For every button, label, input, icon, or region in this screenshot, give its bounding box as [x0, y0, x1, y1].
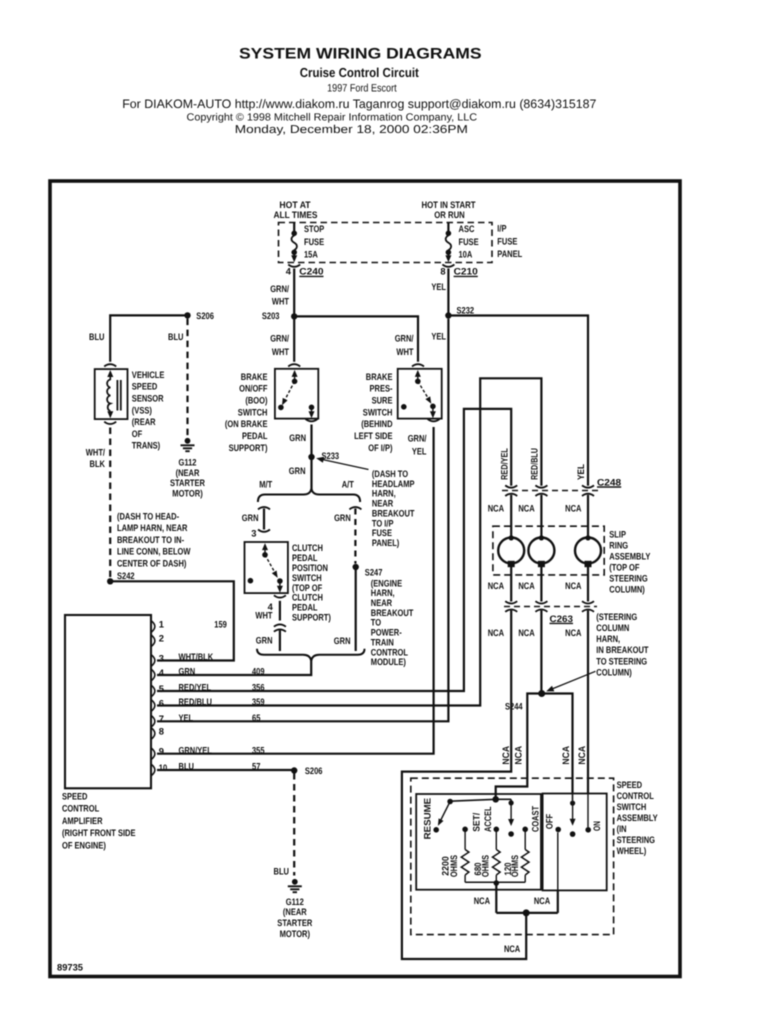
- wire YEL S232 to slip ring 3: [448, 316, 588, 486]
- svg-text:NCA: NCA: [518, 580, 534, 591]
- svg-text:STOP: STOP: [304, 223, 324, 234]
- svg-text:3: 3: [159, 652, 164, 663]
- svg-text:NCA: NCA: [488, 627, 504, 638]
- svg-text:COLUMN): COLUMN): [596, 666, 632, 677]
- wire GRN M/T branch: [263, 509, 265, 530]
- svg-text:Copyright © 1998 Mitchell Repa: Copyright © 1998 Mitchell Repair Informa…: [187, 112, 478, 123]
- svg-text:S242: S242: [117, 570, 135, 581]
- RESUME switch: [447, 799, 453, 805]
- svg-text:S232: S232: [457, 305, 475, 316]
- fuse panel dashed box: [279, 223, 493, 263]
- svg-text:GRN: GRN: [179, 666, 196, 677]
- ground G112 upper: [185, 438, 191, 444]
- amplifier pin 8: [152, 728, 155, 739]
- svg-text:8: 8: [440, 266, 445, 277]
- node NCA junction: [523, 909, 530, 916]
- svg-text:NCA: NCA: [474, 895, 490, 906]
- svg-text:SET/: SET/: [471, 812, 482, 831]
- wire RED/YEL 356 pin 5 to slip ring 1: [157, 409, 511, 691]
- connector C263: [504, 606, 597, 608]
- svg-text:IN BREAKOUT: IN BREAKOUT: [596, 644, 648, 655]
- svg-text:NCA: NCA: [500, 746, 511, 765]
- OFF switch movable contact: [572, 794, 574, 801]
- svg-text:159: 159: [214, 619, 227, 630]
- svg-text:(DASH TO HEAD-: (DASH TO HEAD-: [117, 511, 179, 522]
- svg-text:GRN/: GRN/: [395, 333, 414, 344]
- connector C240 pin 4: [288, 265, 300, 267]
- svg-text:BLU: BLU: [89, 331, 105, 342]
- svg-text:HARN,: HARN,: [596, 633, 620, 644]
- fuse F1 STOP FUSE 15A: [293, 223, 295, 232]
- amplifier pin 5: [152, 686, 155, 697]
- wire GRN/WHT S203 to BOO switch: [293, 316, 295, 361]
- svg-text:SUPPORT): SUPPORT): [292, 612, 331, 623]
- clutch switch contacts: [264, 545, 266, 554]
- wire resistor bus to NCA junction: [495, 883, 497, 913]
- connector below BOO switch: [306, 419, 318, 421]
- svg-text:NCA: NCA: [513, 746, 524, 765]
- wire BLU S206 to G112 lower (dashed): [293, 773, 295, 876]
- vehicle speed sensor VSS box: [95, 369, 128, 419]
- switch box RESUME/SET-ACCEL/COAST: [416, 794, 541, 890]
- fuse F2 ASC FUSE 10A: [447, 223, 449, 232]
- svg-text:M/T: M/T: [259, 479, 272, 490]
- svg-text:OHMS: OHMS: [509, 855, 520, 877]
- svg-text:BLU: BLU: [274, 866, 290, 877]
- wire RED/BLU 359 pin 6 to slip ring 2: [157, 378, 541, 705]
- svg-text:FUSE: FUSE: [304, 236, 324, 247]
- node S206 lower: [291, 767, 297, 773]
- wire WHT/BLK VSS to S242 (dashed): [109, 428, 111, 579]
- switch box OFF/ON: [543, 794, 607, 891]
- svg-text:NCA: NCA: [488, 580, 504, 591]
- amplifier pin 6: [152, 700, 155, 711]
- svg-text:ASSEMBLY: ASSEMBLY: [617, 812, 659, 823]
- resistor 2200 OHMS: [462, 827, 468, 833]
- svg-text:GRN: GRN: [242, 512, 259, 523]
- svg-text:SPEED: SPEED: [617, 779, 643, 790]
- ground G112 lower: [292, 879, 298, 885]
- VSS internal arrows and coil: [109, 373, 111, 381]
- svg-text:ASC: ASC: [459, 223, 475, 234]
- svg-text:OHMS: OHMS: [480, 855, 491, 877]
- svg-text:ON/OFF: ON/OFF: [239, 383, 268, 394]
- svg-text:BRAKE: BRAKE: [241, 371, 268, 382]
- svg-text:10: 10: [159, 762, 167, 773]
- node S232: [445, 312, 451, 318]
- wire GRN/WHT S203 to brake pressure switch: [294, 316, 418, 361]
- svg-text:WHT: WHT: [396, 346, 413, 357]
- slip ring coil 3: [575, 538, 601, 564]
- ON switch contact: [587, 794, 589, 828]
- svg-text:NCA: NCA: [504, 943, 520, 954]
- svg-text:YEL: YEL: [431, 281, 446, 292]
- svg-text:BRAKE: BRAKE: [366, 371, 393, 382]
- svg-text:ASSEMBLY: ASSEMBLY: [609, 551, 651, 562]
- svg-text:OF ENGINE): OF ENGINE): [62, 839, 106, 850]
- wire S244 right branch to OFF contact: [542, 694, 573, 794]
- connector M/T branch top: [258, 507, 270, 509]
- svg-text:VEHICLE: VEHICLE: [132, 369, 165, 380]
- svg-text:409: 409: [252, 666, 265, 677]
- svg-text:7: 7: [159, 713, 164, 724]
- wire slip ring 3 to ON contact: [587, 610, 589, 793]
- svg-text:YEL: YEL: [412, 446, 427, 457]
- svg-text:NCA: NCA: [565, 627, 581, 638]
- svg-text:(REAR: (REAR: [132, 416, 156, 427]
- wire GRN/YEL 355 pin 9 to brake pressure switch: [157, 427, 434, 754]
- svg-text:8: 8: [159, 725, 164, 736]
- svg-text:S244: S244: [505, 701, 523, 712]
- M/T A/T split bracket: [258, 489, 360, 502]
- svg-text:GRN: GRN: [289, 432, 306, 443]
- svg-text:GRN/: GRN/: [270, 283, 289, 294]
- svg-text:15A: 15A: [304, 249, 318, 260]
- svg-text:C210: C210: [454, 266, 478, 277]
- wire GRN clutch to merge: [279, 630, 281, 651]
- brake pressure switch box: [398, 369, 442, 419]
- amplifier pin 9: [152, 748, 155, 759]
- svg-text:ON: ON: [591, 821, 602, 831]
- svg-text:ACCEL: ACCEL: [482, 806, 493, 832]
- brake pressure switch contacts: [417, 372, 419, 380]
- connector above BOO switch: [288, 364, 300, 366]
- svg-text:BLU: BLU: [168, 331, 184, 342]
- OFF switch contact: [555, 827, 561, 833]
- svg-text:S206: S206: [305, 765, 323, 776]
- svg-text:(NEAR: (NEAR: [283, 906, 307, 917]
- wire BLU 57 pin 10 to S206: [157, 769, 294, 771]
- connector below VSS: [104, 422, 116, 424]
- connector A/T branch top: [349, 507, 361, 509]
- svg-text:RESUME: RESUME: [421, 798, 432, 840]
- svg-text:CONTROL: CONTROL: [617, 790, 654, 801]
- wire WHT clutch pin 4: [279, 601, 281, 621]
- amplifier pin 1: [152, 621, 155, 632]
- svg-text:STEERING: STEERING: [609, 573, 647, 584]
- svg-text:MOTOR): MOTOR): [280, 928, 310, 939]
- svg-text:C248: C248: [597, 477, 621, 488]
- amplifier pin 2: [152, 635, 155, 646]
- svg-text:SPEED: SPEED: [132, 381, 158, 392]
- junction dot from S244 branch: [492, 796, 499, 803]
- in-line connector on clutch wire: [274, 624, 286, 626]
- resistor 680 OHMS: [494, 827, 500, 833]
- wire GRN/WHT fuse F1 to S203: [293, 269, 295, 317]
- svg-text:I/P: I/P: [497, 222, 506, 233]
- svg-text:YEL: YEL: [575, 464, 586, 480]
- svg-text:MOTOR): MOTOR): [172, 487, 202, 498]
- svg-text:LEFT SIDE: LEFT SIDE: [354, 430, 392, 441]
- svg-text:STEERING: STEERING: [617, 834, 655, 845]
- svg-text:WHT/: WHT/: [86, 447, 106, 458]
- wire GRN BOO to S233: [310, 425, 312, 458]
- arrow pointing to S244: [550, 671, 596, 690]
- svg-text:SWITCH: SWITCH: [363, 406, 393, 417]
- svg-text:OHMS: OHMS: [448, 855, 459, 877]
- svg-text:RED/YEL: RED/YEL: [498, 448, 509, 480]
- wire BLU S206 to G112 (dashed): [186, 319, 188, 437]
- wiper contact SET-ACCEL/COAST: [496, 798, 511, 800]
- svg-text:GRN: GRN: [289, 465, 306, 476]
- svg-text:COLUMN: COLUMN: [596, 622, 629, 633]
- svg-text:RING: RING: [609, 540, 628, 551]
- amplifier pin 10: [152, 765, 155, 776]
- wire GRN A/T branch (dashed): [354, 509, 356, 564]
- svg-text:COAST: COAST: [529, 806, 540, 832]
- wire NCA junction bus: [496, 912, 558, 914]
- wire OFF contact to NCA junction: [557, 890, 559, 913]
- svg-text:NCA: NCA: [518, 503, 534, 514]
- svg-text:(BOO): (BOO): [245, 395, 267, 406]
- node S244: [538, 690, 545, 697]
- wires slip ring to C263: [510, 566, 512, 602]
- resistor bus bar: [465, 881, 525, 883]
- svg-text:GRN/: GRN/: [270, 333, 289, 344]
- slip ring coil 2: [528, 538, 554, 564]
- svg-text:SLIP: SLIP: [609, 529, 626, 540]
- svg-text:MODULE): MODULE): [371, 656, 406, 667]
- svg-text:GRN: GRN: [334, 635, 351, 646]
- wire YEL fuse F2 to S232: [447, 269, 449, 316]
- svg-text:(STEERING: (STEERING: [596, 611, 637, 622]
- svg-text:OF: OF: [132, 428, 143, 439]
- svg-text:3: 3: [251, 528, 256, 539]
- svg-text:(IN: (IN: [617, 823, 627, 834]
- svg-text:For DIAKOM-AUTO http://www.dia: For DIAKOM-AUTO http://www.diakom.ru Tag…: [122, 97, 596, 111]
- speed control amplifier connector box: [65, 615, 151, 788]
- merge bracket to pin 4 wire: [257, 649, 365, 661]
- svg-text:BLK: BLK: [90, 458, 106, 469]
- svg-text:GRN: GRN: [256, 635, 273, 646]
- wire slip ring 2 to S244: [540, 610, 542, 693]
- svg-text:4: 4: [159, 667, 165, 678]
- svg-text:OFF: OFF: [544, 814, 555, 829]
- svg-text:FUSE: FUSE: [497, 235, 517, 246]
- svg-text:SWITCH: SWITCH: [617, 801, 647, 812]
- svg-text:TRANS): TRANS): [132, 440, 160, 451]
- svg-text:GRN: GRN: [334, 512, 351, 523]
- svg-text:Cruise Control Circuit: Cruise Control Circuit: [300, 65, 420, 80]
- svg-text:4: 4: [286, 266, 292, 277]
- svg-text:SURE: SURE: [372, 395, 393, 406]
- wire GRN S247 to merge: [355, 567, 357, 651]
- svg-text:SENSOR: SENSOR: [132, 393, 164, 404]
- wire GRN 409 merge to amplifier pin 4: [157, 658, 311, 675]
- svg-text:OR RUN: OR RUN: [434, 209, 465, 220]
- svg-text:C263: C263: [550, 613, 574, 624]
- svg-text:BREAKOUT TO IN-: BREAKOUT TO IN-: [117, 534, 184, 545]
- wire GRN S233 to M/T A/T split: [310, 457, 312, 490]
- svg-text:OF I/P): OF I/P): [368, 442, 392, 453]
- svg-text:10A: 10A: [459, 249, 473, 260]
- connector C210 pin 8: [442, 265, 454, 267]
- svg-text:1997 Ford Escort: 1997 Ford Escort: [327, 82, 397, 94]
- svg-text:(RIGHT FRONT SIDE: (RIGHT FRONT SIDE: [62, 827, 136, 838]
- svg-text:Monday, December 18, 2000 02:: Monday, December 18, 2000 02:36PM: [235, 124, 468, 136]
- svg-text:TO STEERING: TO STEERING: [596, 655, 647, 666]
- svg-text:(VSS): (VSS): [132, 404, 152, 415]
- svg-text:RED/BLU: RED/BLU: [528, 448, 539, 480]
- svg-text:S203: S203: [262, 310, 280, 321]
- slip ring assembly dashed box: [493, 526, 604, 575]
- svg-text:LAMP HARN, NEAR: LAMP HARN, NEAR: [117, 522, 188, 533]
- svg-text:NCA: NCA: [518, 627, 534, 638]
- arrow pointing to S233: [320, 459, 369, 470]
- svg-text:PANEL: PANEL: [497, 248, 522, 259]
- connector C248: [502, 490, 598, 492]
- wire YEL 65 pin 7 to S232: [157, 319, 448, 722]
- svg-text:SUPPORT): SUPPORT): [229, 442, 268, 453]
- svg-text:COLUMN): COLUMN): [609, 584, 645, 595]
- svg-text:9: 9: [159, 746, 164, 757]
- svg-text:PRES-: PRES-: [370, 383, 393, 394]
- svg-text:2: 2: [159, 633, 164, 644]
- node S206 upper: [184, 312, 190, 318]
- slip ring coil 1: [498, 538, 524, 564]
- node S247: [353, 564, 359, 570]
- svg-text:WHEEL): WHEEL): [617, 845, 647, 856]
- svg-text:S206: S206: [196, 310, 214, 321]
- speed control switch assembly dashed box: [411, 778, 614, 934]
- node S233: [308, 454, 314, 460]
- svg-text:NCA: NCA: [565, 503, 581, 514]
- svg-text:NCA: NCA: [576, 746, 587, 765]
- svg-text:SPEED: SPEED: [62, 791, 88, 802]
- wires C248 to slip ring coils: [510, 495, 512, 537]
- svg-text:A/T: A/T: [342, 479, 354, 490]
- svg-text:(TOP OF: (TOP OF: [609, 562, 639, 573]
- amplifier pin 3: [152, 655, 155, 666]
- svg-text:SYSTEM WIRING DIAGRAMS: SYSTEM WIRING DIAGRAMS: [239, 45, 482, 62]
- clutch pedal position switch box: [245, 542, 288, 593]
- svg-text:AMPLIFIER: AMPLIFIER: [62, 815, 103, 826]
- svg-text:WHT: WHT: [272, 295, 289, 306]
- svg-text:PANEL): PANEL): [372, 537, 399, 548]
- wire slip ring 1 to NCA loop: [402, 610, 526, 959]
- svg-text:LINE CONN, BELOW: LINE CONN, BELOW: [117, 546, 191, 557]
- svg-text:NCA: NCA: [534, 895, 550, 906]
- svg-text:STARTER: STARTER: [277, 917, 312, 928]
- svg-text:WHT/BLK: WHT/BLK: [179, 651, 214, 662]
- wire BLU S206 to VSS: [110, 315, 187, 361]
- svg-text:89735: 89735: [57, 961, 83, 972]
- connector above brake pressure switch: [412, 364, 424, 366]
- svg-text:NCA: NCA: [488, 503, 504, 514]
- svg-text:S247: S247: [365, 567, 383, 578]
- connector above VSS: [104, 364, 116, 366]
- svg-text:YEL: YEL: [431, 331, 446, 342]
- amplifier pin 4: [152, 670, 155, 681]
- svg-text:C240: C240: [299, 266, 323, 277]
- svg-text:5: 5: [159, 683, 164, 694]
- connector below clutch switch: [274, 595, 286, 597]
- brake on/off BOO switch box: [275, 369, 318, 419]
- svg-text:GRN/: GRN/: [408, 433, 427, 444]
- svg-text:CONTROL: CONTROL: [62, 803, 99, 814]
- svg-text:1: 1: [159, 618, 164, 629]
- connector below brake pressure switch: [428, 419, 440, 421]
- svg-text:(BEHIND: (BEHIND: [361, 418, 392, 429]
- svg-text:FUSE: FUSE: [459, 236, 479, 247]
- BOO switch contacts: [294, 372, 296, 380]
- svg-text:ALL TIMES: ALL TIMES: [274, 209, 318, 220]
- svg-text:WHT: WHT: [255, 610, 272, 621]
- svg-text:CENTER OF DASH): CENTER OF DASH): [117, 557, 186, 568]
- svg-text:NCA: NCA: [560, 746, 571, 765]
- wire WHT/BLK S242 to amplifier pin 3: [110, 581, 234, 660]
- node S203: [291, 313, 297, 319]
- svg-text:(ON BRAKE: (ON BRAKE: [225, 418, 268, 429]
- svg-text:PEDAL: PEDAL: [242, 430, 268, 441]
- amplifier pin 7: [152, 716, 155, 727]
- svg-text:SWITCH: SWITCH: [238, 406, 268, 417]
- svg-text:WHT: WHT: [272, 346, 289, 357]
- wire S244 left branch to switch wiper: [496, 694, 542, 798]
- svg-text:6: 6: [159, 697, 164, 708]
- svg-text:NCA: NCA: [565, 580, 581, 591]
- resistor 120 OHMS: [522, 827, 528, 833]
